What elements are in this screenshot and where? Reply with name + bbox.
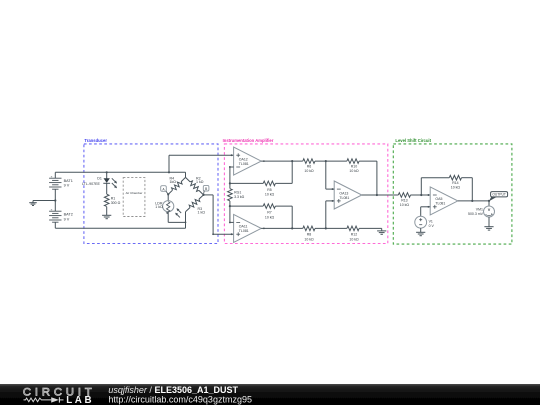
svg-text:10 kΩ: 10 kΩ xyxy=(349,169,359,173)
svg-text:1 kΩ: 1 kΩ xyxy=(155,205,163,209)
svg-text:Level Shift Circuit: Level Shift Circuit xyxy=(395,138,431,143)
svg-text:TL081: TL081 xyxy=(239,162,249,166)
svg-text:10 kΩ: 10 kΩ xyxy=(265,193,275,197)
svg-text:10 kΩ: 10 kΩ xyxy=(349,237,359,241)
svg-text:BAT1: BAT1 xyxy=(64,179,73,183)
svg-text:BAT2: BAT2 xyxy=(64,213,73,217)
svg-text:TL081: TL081 xyxy=(239,229,249,233)
svg-text:300 Ω: 300 Ω xyxy=(111,201,121,205)
svg-text:10 kΩ: 10 kΩ xyxy=(400,203,410,207)
svg-text:LAB: LAB xyxy=(66,395,94,405)
svg-text:R6: R6 xyxy=(307,164,312,168)
svg-text:10 kΩ: 10 kΩ xyxy=(304,169,314,173)
svg-text:RG1: RG1 xyxy=(234,191,241,195)
svg-text:R14: R14 xyxy=(452,181,458,185)
svg-text:V1: V1 xyxy=(429,219,433,223)
svg-text:OA13: OA13 xyxy=(339,191,348,195)
svg-text:10 kΩ: 10 kΩ xyxy=(451,186,461,190)
svg-text:Transducer: Transducer xyxy=(84,138,107,143)
svg-text:R1: R1 xyxy=(111,196,116,200)
svg-text:LTL-907EE: LTL-907EE xyxy=(82,182,101,186)
svg-text:OA12: OA12 xyxy=(239,157,248,161)
svg-text:V: V xyxy=(488,208,491,212)
svg-text:1 kΩ: 1 kΩ xyxy=(196,180,204,184)
svg-text:9 V: 9 V xyxy=(64,217,70,221)
svg-text:+: + xyxy=(51,208,53,212)
svg-text:1kΩ: 1kΩ xyxy=(170,180,177,184)
svg-text:1 kΩ: 1 kΩ xyxy=(198,210,206,214)
svg-text:Instrumentation Amplifier: Instrumentation Amplifier xyxy=(223,138,274,143)
svg-text:R5: R5 xyxy=(267,188,272,192)
svg-text:TL081: TL081 xyxy=(339,196,349,200)
svg-text:3.3 kΩ: 3.3 kΩ xyxy=(234,195,245,199)
svg-text:10 kΩ: 10 kΩ xyxy=(304,237,314,241)
svg-text:TL081: TL081 xyxy=(435,202,445,206)
svg-text:R12: R12 xyxy=(351,233,357,237)
svg-text:http://circuitlab.com/c49q3gzt: http://circuitlab.com/c49q3gztmzg95 xyxy=(108,395,252,405)
svg-text:9 V: 9 V xyxy=(64,184,70,188)
svg-text:500.3 mV: 500.3 mV xyxy=(468,212,484,216)
svg-text:Air Chamber: Air Chamber xyxy=(126,191,143,195)
svg-text:OUTPUT: OUTPUT xyxy=(492,193,506,197)
svg-text:10 kΩ: 10 kΩ xyxy=(265,215,275,219)
svg-text:0 V: 0 V xyxy=(429,224,435,228)
svg-text:R8: R8 xyxy=(307,233,312,237)
svg-text:R7: R7 xyxy=(267,211,272,215)
svg-text:+: + xyxy=(51,175,53,179)
svg-text:R10: R10 xyxy=(351,164,357,168)
svg-text:D1: D1 xyxy=(97,177,102,181)
svg-text:OA5: OA5 xyxy=(435,197,442,201)
svg-text:R13: R13 xyxy=(401,198,407,202)
svg-text:OA11: OA11 xyxy=(239,225,248,229)
svg-text:VM1: VM1 xyxy=(476,207,483,211)
